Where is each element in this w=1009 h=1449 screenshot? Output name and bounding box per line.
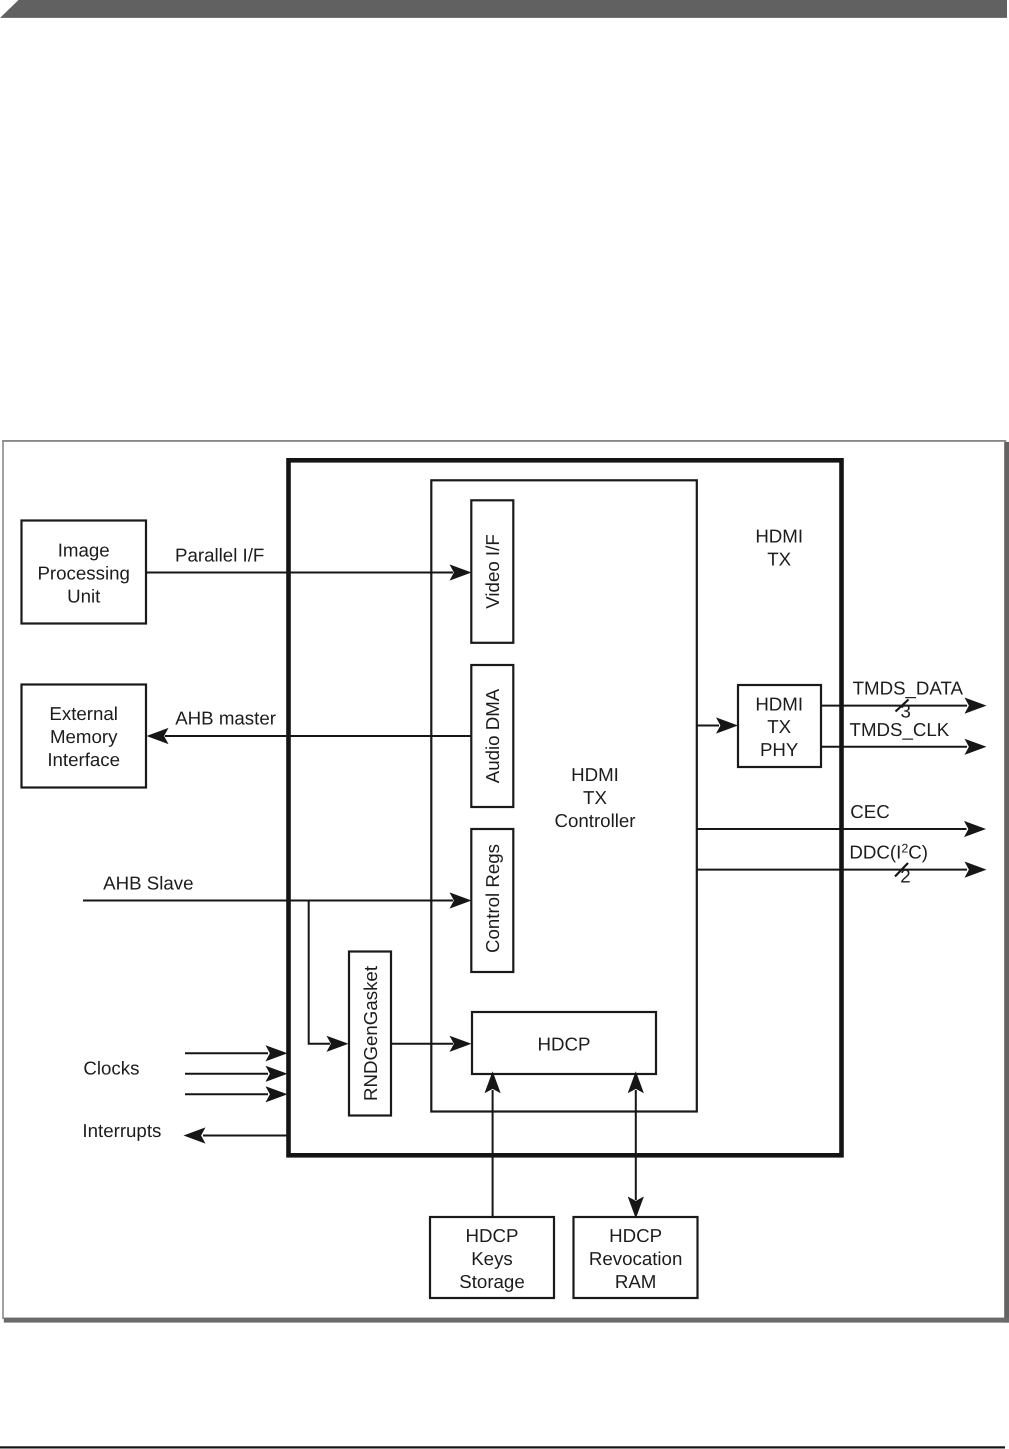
wire AHB Slave (to Control Regs) with arrowhead [83,892,472,908]
block RNDGenGasket [349,952,391,1116]
svg-text:Control Regs: Control Regs [482,844,503,953]
svg-text:TX: TX [767,548,791,569]
svg-text:DDC(I2C): DDC(I2C) [849,842,928,863]
wire AHB Slave branch down to RNDGenGasket with arrowhead [309,901,349,1052]
svg-text:HDCP: HDCP [466,1225,519,1246]
page top banner bar [0,0,1007,18]
svg-text:Controller: Controller [554,810,635,831]
svg-text:External: External [49,703,118,724]
svg-text:HDMI: HDMI [755,694,803,715]
block HDCP Revocation RAM [574,1217,698,1298]
svg-text:Revocation: Revocation [589,1248,683,1269]
block Video I/F [471,500,513,643]
wire DDC output with arrowhead [697,862,987,878]
svg-text:PHY: PHY [760,739,799,760]
block HDMI TX Controller [431,480,697,1111]
svg-text:Audio DMA: Audio DMA [482,688,503,783]
wire Interrupts output with arrowhead [184,1127,291,1143]
block External Memory Interface [22,685,147,788]
block Audio DMA [471,665,513,807]
svg-text:Interface: Interface [47,749,120,770]
svg-text:Memory: Memory [50,726,118,747]
svg-text:RAM: RAM [615,1271,657,1292]
figure frame top border [2,440,1006,442]
svg-text:Clocks: Clocks [83,1057,139,1078]
svg-text:TX: TX [767,716,791,737]
block HDCP [472,1012,656,1074]
svg-text:Unit: Unit [67,585,101,606]
svg-text:Video I/F: Video I/F [482,534,503,608]
wire RNDGenGasket output to HDCP with arrowhead [391,1036,472,1052]
svg-text:RNDGenGasket: RNDGenGasket [360,965,381,1101]
svg-text:HDCP: HDCP [609,1225,662,1246]
bus width slash on TMDS_DATA [896,700,909,712]
wire HDCP to HDCP Revocation RAM with arrowheads both ends [628,1071,644,1218]
wire clock input 2 with arrowhead [185,1066,288,1082]
block HDMI TX (thick outer frame) [289,460,842,1155]
svg-text:AHB Slave: AHB Slave [103,873,193,894]
svg-text:HDCP: HDCP [538,1033,591,1054]
figure frame bottom border [4,1318,1009,1323]
wire TMDS_DATA output with arrowhead [821,698,987,714]
wire Parallel I/F (IPU to Video I/F) with arrowhead [146,564,472,580]
block HDMI TX PHY [738,685,821,767]
wire clock input 1 with arrowhead [185,1045,288,1061]
svg-text:Processing: Processing [37,563,129,584]
page bottom rule [0,1446,1005,1448]
wire AHB master (Audio DMA to External Memory Interface) with arrowhead [147,728,472,744]
svg-text:Storage: Storage [459,1271,524,1292]
svg-text:Image: Image [58,540,110,561]
svg-text:CEC: CEC [850,801,889,822]
wire Controller to HDMI TX PHY with arrowhead [697,717,738,733]
block HDCP Keys Storage [430,1217,554,1298]
svg-text:Keys: Keys [471,1248,513,1269]
svg-text:TMDS_CLK: TMDS_CLK [850,719,950,740]
svg-text:AHB master: AHB master [175,708,276,729]
block Control Regs [471,829,513,972]
block Image Processing Unit [22,521,147,624]
wire HDCP to HDCP Keys Storage with up arrowhead [485,1071,501,1217]
svg-text:Parallel I/F: Parallel I/F [175,544,264,565]
figure frame right border [1004,442,1009,1323]
svg-text:HDMI: HDMI [571,764,619,785]
svg-text:TMDS_DATA: TMDS_DATA [853,677,964,698]
svg-text:2: 2 [900,865,910,886]
svg-text:Interrupts: Interrupts [82,1120,161,1141]
wire CEC output with arrowhead [697,821,986,837]
bus width slash on DDC [895,863,908,877]
figure frame left border [2,440,4,1319]
svg-text:HDMI: HDMI [755,525,803,546]
wire clock input 3 with arrowhead [185,1086,288,1102]
svg-text:TX: TX [583,787,607,808]
wire TMDS_CLK output with arrowhead [821,739,987,755]
